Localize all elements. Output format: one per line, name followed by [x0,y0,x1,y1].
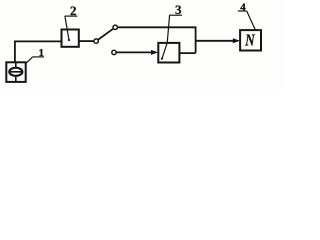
switch lever [98,29,113,40]
wire block1 -> block2 [15,41,62,62]
block 2 [62,30,79,47]
leader line label 3 into block 3 [162,15,170,58]
leader line label 1 [26,57,33,64]
wire block2 -> switch pole [79,40,94,42]
block 3 [158,43,179,63]
junction vertical wire [195,27,197,54]
wire junction -> block4 with arrow [196,40,235,42]
shelf under label 1 [33,56,45,58]
switch pole contact [94,39,98,43]
bypass wire (upper contact to junction) [118,26,196,28]
svg-text:N: N [244,31,255,50]
shelf under label 4 [238,10,247,12]
switch upper contact [113,25,117,29]
leader line label 2 into block 2 [65,16,69,40]
transducer symbol inside block 1 [9,63,24,81]
shelf under label 3 [169,14,182,16]
wire lower contact -> block3 with arrow [116,51,152,53]
wire block3 output [179,52,195,54]
shelf under label 2 [65,15,78,17]
leader line label 4 [247,11,256,30]
switch lower contact [112,50,116,54]
block 4 [240,30,261,50]
block 1 (transducer box) [6,62,25,82]
